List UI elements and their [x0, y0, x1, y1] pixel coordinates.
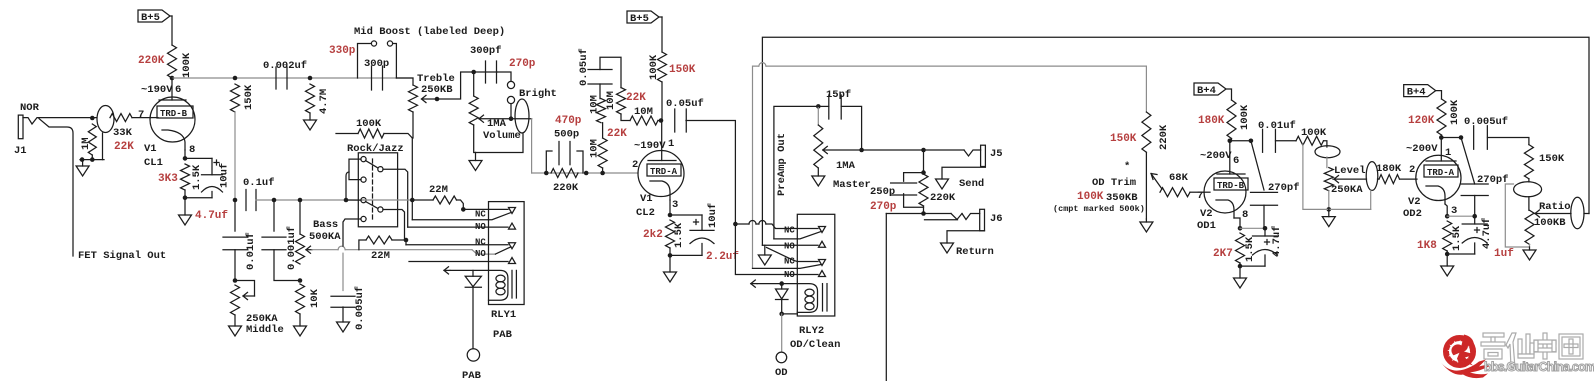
resistor 22M (bass/NC2)	[366, 236, 392, 244]
node tone stack top left	[233, 198, 238, 203]
svg-text:220K: 220K	[930, 192, 956, 204]
switch contacts	[361, 157, 366, 162]
svg-text:10M: 10M	[589, 95, 601, 114]
ground symbol (0.005uf)	[337, 322, 350, 332]
ground symbol (V1b cathode)	[664, 272, 677, 282]
shield ellipse (level feed)	[1315, 146, 1340, 158]
node: V1b plate	[659, 118, 664, 123]
svg-text:0.05uf: 0.05uf	[578, 48, 590, 86]
power flag B+4 (OD1)	[1194, 83, 1226, 95]
ground symbol (4.7M)	[304, 120, 317, 130]
svg-text:220K: 220K	[1158, 124, 1170, 150]
ground symbol (master)	[812, 176, 825, 186]
svg-text:150K: 150K	[1110, 133, 1137, 145]
node: treble wiper	[435, 97, 440, 102]
ratio wiper	[1534, 213, 1571, 215]
svg-text:22K: 22K	[607, 128, 627, 140]
svg-text:330p: 330p	[329, 45, 356, 57]
svg-text:180K: 180K	[1376, 163, 1402, 175]
svg-text:220K: 220K	[138, 55, 165, 67]
relay RLY1 contact box	[489, 202, 525, 305]
svg-text:6: 6	[1233, 155, 1239, 167]
svg-text:Volume: Volume	[483, 130, 521, 142]
svg-text:0.01uf: 0.01uf	[245, 232, 257, 270]
potentiometer 1MA Volume	[473, 72, 475, 96]
svg-text:FET Signal Out: FET Signal Out	[78, 250, 166, 262]
wire main down to blade1	[411, 200, 413, 220]
resistor 220K (send load)	[919, 174, 928, 206]
svg-text:500p: 500p	[554, 129, 579, 141]
svg-text:2K7: 2K7	[1213, 248, 1233, 260]
input jack J1 (NOR)	[18, 115, 23, 139]
svg-text:V1: V1	[144, 143, 157, 155]
svg-text:100K: 100K	[181, 52, 193, 78]
wire tone top	[256, 199, 363, 201]
wire to NC2 row	[405, 240, 407, 245]
node 0.001uf top	[272, 198, 277, 203]
node OD1 plate	[1228, 139, 1233, 144]
svg-text:OD Trim: OD Trim	[1092, 177, 1136, 189]
ground symbol (relay NO1)	[758, 255, 771, 265]
node: V1a plate	[170, 76, 175, 81]
svg-text:250KA: 250KA	[1331, 184, 1363, 196]
svg-text:350KB: 350KB	[1106, 192, 1138, 204]
svg-text:22K: 22K	[114, 141, 134, 153]
svg-text:TRD-A: TRD-A	[1427, 168, 1455, 178]
OD2 cathode network	[1445, 204, 1447, 216]
svg-text:NC: NC	[784, 226, 795, 236]
svg-text:0.002uf: 0.002uf	[263, 60, 307, 72]
relay RLY2 blade2 (OD drive from rail2)	[753, 267, 798, 269]
wire to 150K	[1488, 138, 1529, 145]
node: send line / 220K	[921, 148, 926, 153]
svg-text:100K: 100K	[1239, 104, 1251, 130]
svg-text:33K: 33K	[113, 127, 133, 139]
svg-text:3K3: 3K3	[158, 173, 178, 185]
potentiometer OD Trim 220K/350KB	[1142, 112, 1151, 152]
power flag B+5 (stage 1)	[138, 10, 170, 22]
svg-text:Master: Master	[833, 179, 871, 191]
node 220K right	[584, 171, 589, 176]
svg-text:0.01uf: 0.01uf	[1258, 120, 1296, 132]
svg-text:22M: 22M	[371, 250, 390, 262]
resistor 100K plate load OD2 (red 120K)	[1437, 99, 1446, 135]
relay RLY2 coil row + arrow	[757, 283, 797, 285]
relay RLY1 coil row + arrow	[450, 269, 489, 271]
svg-text:1MA: 1MA	[836, 160, 856, 172]
triode V2 OD1 (TRD-B)	[1204, 171, 1246, 213]
svg-text:8: 8	[189, 144, 195, 156]
diagonal to NC2	[767, 248, 795, 261]
diode (RLY1 coil)	[472, 270, 474, 276]
volume wiper wire	[479, 118, 532, 120]
svg-text:7: 7	[1197, 190, 1203, 202]
node: jack tip / 1M	[90, 116, 95, 121]
resistor 10M #2 (ladder top)	[597, 99, 606, 123]
svg-text:RLY1: RLY1	[491, 309, 516, 321]
svg-text:1.5K: 1.5K	[191, 164, 203, 190]
svg-text:(cmpt marked 500k): (cmpt marked 500k)	[1053, 204, 1145, 214]
ground symbol (ratio)	[1523, 250, 1536, 260]
node 22M/NC1	[461, 207, 466, 212]
svg-text:3: 3	[1451, 205, 1457, 217]
node: master feed	[816, 104, 821, 109]
svg-text:100K: 100K	[1449, 99, 1461, 125]
resistor 1.5K cathode (red 2k2)	[666, 220, 675, 248]
shield ellipse (ratio wiper)	[1571, 197, 1584, 228]
svg-text:J1: J1	[14, 145, 27, 157]
svg-text:V2: V2	[1200, 208, 1213, 220]
svg-text:1.5K: 1.5K	[673, 222, 685, 248]
svg-text:CL1: CL1	[144, 157, 163, 169]
rail: Ratio wiper to relay NO1 (top rail 1)	[762, 37, 1589, 245]
node bass top	[298, 198, 303, 203]
svg-text:22K: 22K	[626, 92, 646, 104]
main line to relay area	[363, 199, 413, 201]
svg-text:100K: 100K	[1077, 191, 1104, 203]
svg-text:300p: 300p	[364, 58, 389, 70]
svg-text:Send: Send	[959, 178, 984, 190]
OD trim wiper + 68K	[1151, 174, 1162, 190]
wire to OD switch terminal	[781, 314, 783, 352]
svg-text:2: 2	[1409, 164, 1415, 176]
shield ellipse at input	[97, 106, 114, 133]
svg-text:NO: NO	[475, 249, 486, 259]
22M#2 branch	[359, 240, 366, 250]
svg-text:B+4: B+4	[1197, 85, 1216, 97]
resistor 150K	[231, 84, 240, 112]
svg-text:150K: 150K	[669, 64, 696, 76]
ground symbol (volume)	[469, 161, 482, 171]
resistor 10K	[296, 284, 305, 314]
potentiometer 1MA Master	[814, 125, 823, 168]
resistor 100K (to level)	[1276, 140, 1297, 142]
switch left jumpers	[349, 159, 361, 180]
svg-text:Mid Boost (labeled Deep): Mid Boost (labeled Deep)	[354, 26, 505, 38]
node 500p/220K left	[544, 171, 549, 176]
node: 150K top	[233, 76, 238, 81]
svg-text:68K: 68K	[1169, 172, 1189, 184]
resistor 10M middle (red 22K)	[617, 88, 626, 114]
svg-text:PAB: PAB	[493, 329, 513, 341]
svg-text:10uf: 10uf	[219, 163, 231, 188]
svg-text:4.7uf: 4.7uf	[1481, 217, 1493, 249]
svg-text:NC: NC	[475, 238, 486, 248]
ground symbol (V1a cathode)	[179, 215, 192, 225]
wire 100K/treble junction down to relay	[411, 138, 413, 199]
wire volume wiper down	[531, 119, 533, 173]
ground symbol (return sleeve)	[941, 243, 954, 253]
svg-text:TRD-B: TRD-B	[1217, 181, 1245, 191]
svg-text:270p: 270p	[870, 201, 897, 213]
wire 220K branch	[923, 150, 925, 173]
svg-text:500KA: 500KA	[309, 231, 341, 243]
wire coupling cap out	[686, 121, 735, 225]
resistor 10M #1 (ladder bottom, red 22K)	[598, 138, 607, 168]
node bass bottom	[298, 278, 303, 283]
volume bottom to ground	[474, 125, 476, 153]
svg-text:10M: 10M	[605, 91, 617, 110]
watermark text GuitarChina	[1481, 333, 1583, 368]
svg-text:~200V: ~200V	[1200, 150, 1232, 162]
resistor 220K (parallel)	[551, 169, 578, 178]
svg-text:1.5K: 1.5K	[1451, 225, 1463, 251]
relay RLY1 core bars	[511, 270, 513, 298]
svg-text:100K: 100K	[1301, 127, 1327, 139]
relay RLY2 contact box	[797, 214, 835, 316]
mid boost switch	[358, 44, 372, 79]
wire: master feed down	[817, 106, 819, 125]
svg-text:100KB: 100KB	[1534, 217, 1566, 229]
wire send	[964, 150, 981, 156]
ground symbol (OD trim)	[1140, 222, 1153, 232]
ground symbol (send sleeve)	[936, 179, 949, 189]
svg-text:250p: 250p	[870, 186, 895, 198]
node switch/main	[344, 198, 349, 203]
wire treble bottom	[412, 112, 414, 138]
potentiometer 250KA Middle	[231, 285, 240, 315]
svg-text:10M: 10M	[589, 139, 601, 158]
svg-text:Return: Return	[956, 246, 994, 258]
shield ellipse (bright wire)	[515, 99, 529, 133]
svg-text:Bass: Bass	[313, 219, 338, 231]
relay RLY2 core bars	[822, 284, 824, 311]
svg-text:~190V: ~190V	[141, 84, 173, 96]
resistor 100K plate load V1b (red 150K)	[658, 52, 667, 82]
svg-text:V1: V1	[640, 193, 653, 205]
cathode network V1a: 1.5K + 10uf (red 4.7uf)	[184, 150, 186, 158]
resistor 100K plate load OD1 (red 180K)	[1227, 100, 1236, 139]
svg-text:PreAmp Out: PreAmp Out	[776, 133, 788, 196]
svg-text:250KB: 250KB	[421, 84, 453, 96]
switch dashed bar	[372, 159, 374, 219]
switch terminal to 0.005uf	[343, 219, 361, 246]
bass wiper long wire (to relay blade2)	[312, 249, 338, 251]
svg-text:300pf: 300pf	[470, 45, 502, 57]
relay RLY2 blade1 (preamp out)	[774, 238, 797, 240]
svg-text:NC: NC	[475, 210, 486, 220]
wire treble wiper to bright/volume node	[437, 72, 497, 99]
power flag B+4 (OD2)	[1404, 85, 1436, 97]
svg-text:Middle: Middle	[246, 324, 284, 336]
rock/jazz switch box	[358, 153, 397, 227]
node OD2 plate	[1439, 135, 1444, 140]
svg-text:NO: NO	[784, 242, 795, 252]
svg-text:OD: OD	[775, 367, 788, 379]
wire: preamp-out vertical	[774, 106, 818, 239]
capacitor 4.7uf (red 1uf)	[1447, 215, 1475, 217]
svg-text:~200V: ~200V	[1406, 143, 1438, 155]
jack J6 Return	[980, 209, 985, 231]
svg-text:B+5: B+5	[630, 13, 649, 25]
svg-text:10M: 10M	[634, 106, 653, 118]
capacitor 10uf bypass (red 2.2uf)	[670, 214, 702, 216]
svg-text:2: 2	[632, 159, 638, 171]
capacitor 0.005uf	[331, 295, 355, 297]
ratio bottom rail	[1505, 184, 1529, 247]
svg-text:8: 8	[1242, 209, 1248, 221]
svg-text:4.7uf: 4.7uf	[195, 210, 228, 222]
resistor 1.5K (red 1K8)	[1443, 221, 1452, 251]
wire: plate rail to tone stack	[172, 77, 413, 79]
return line	[921, 211, 926, 216]
switch moving contact wires to relay	[383, 169, 408, 227]
resistor 22M (PAB bypass)	[412, 199, 433, 201]
svg-text:220K: 220K	[553, 182, 579, 194]
svg-text:1.5K: 1.5K	[1244, 236, 1256, 262]
cathode node V1b	[669, 200, 671, 215]
wire: 150K down to tone stack	[234, 112, 236, 200]
level wiper	[1333, 178, 1367, 180]
svg-text:1uf: 1uf	[1494, 248, 1514, 260]
svg-text:0.05uf: 0.05uf	[666, 98, 704, 110]
capacitor 0.01uf (middle)	[234, 200, 236, 231]
svg-text:V2: V2	[1408, 196, 1421, 208]
ground symbol (OD2 cathode)	[1441, 266, 1454, 276]
rail: OD Trim feed (rail 2) with hop	[753, 66, 759, 268]
capacitor 4.7uf bypass	[1240, 227, 1265, 229]
svg-text:2.2uf: 2.2uf	[706, 251, 739, 263]
svg-text:180K: 180K	[1198, 115, 1225, 127]
resistor 1.5K (red 2K7)	[1236, 233, 1245, 263]
triode V1 CL2 (TRD-A)	[638, 151, 684, 197]
svg-text:TRD-B: TRD-B	[160, 109, 188, 119]
relay RLY1 blade1	[412, 219, 488, 221]
svg-text:3: 3	[672, 199, 678, 211]
node: 4.7M top	[308, 76, 313, 81]
svg-text:10uf: 10uf	[707, 203, 719, 228]
svg-text:OD1: OD1	[1197, 220, 1216, 232]
svg-text:NOR: NOR	[20, 102, 40, 114]
svg-text:0.005uf: 0.005uf	[1464, 116, 1508, 128]
wire to Treble	[396, 78, 413, 85]
potentiometer Bass 500KA	[299, 200, 301, 234]
svg-text:PAB: PAB	[462, 370, 482, 381]
svg-text:22M: 22M	[429, 184, 448, 196]
svg-text:10K: 10K	[309, 288, 321, 308]
bass wiper	[306, 249, 312, 251]
svg-text:OD/Clean: OD/Clean	[790, 339, 840, 351]
OD1 cathode network	[1234, 218, 1240, 228]
svg-text:Ratio: Ratio	[1539, 201, 1571, 213]
svg-text:Bright: Bright	[519, 88, 557, 100]
relay RLY1 coil	[489, 270, 508, 300]
relay RLY2 coil	[797, 284, 817, 313]
svg-text:RLY2: RLY2	[799, 325, 824, 337]
svg-text:J6: J6	[990, 213, 1003, 225]
node grid ladder bottom	[600, 171, 605, 176]
triode V2 OD2 (TRD-A)	[1416, 155, 1461, 200]
svg-text:100K: 100K	[648, 54, 660, 80]
wire V1b out to NC1 with hops	[749, 221, 756, 225]
svg-text:TRD-A: TRD-A	[650, 167, 678, 177]
switch blades	[366, 161, 379, 169]
svg-text:B+5: B+5	[141, 12, 160, 24]
resistor 10M horizontal to plate	[630, 116, 658, 125]
node main/NO-vert	[410, 198, 415, 203]
capacitor 0.001uf	[273, 200, 275, 231]
svg-text:2k2: 2k2	[643, 229, 663, 241]
ground symbol (middle pot)	[229, 326, 242, 336]
ground stub on NO1/NC2	[764, 245, 766, 255]
svg-text:0.005uf: 0.005uf	[354, 286, 366, 330]
triode V1 CL1 (TRD-B)	[150, 97, 195, 142]
svg-text:1M: 1M	[80, 137, 92, 150]
level shield/ground rail	[1328, 191, 1330, 210]
node bright to volume wiper	[509, 116, 514, 121]
svg-text:7: 7	[138, 109, 144, 121]
ground symbol (OD1 cathode)	[1234, 278, 1247, 288]
ground bus at input	[80, 159, 104, 161]
resistor 4.7M	[306, 84, 315, 113]
svg-text:150K: 150K	[243, 84, 255, 110]
svg-text:6: 6	[175, 84, 181, 96]
wire main to grid ladder	[532, 172, 638, 174]
svg-text:0.001uf: 0.001uf	[286, 226, 298, 270]
node: volume top	[471, 70, 476, 75]
terminal PAB	[467, 349, 479, 361]
power flag B+5 (stage 2)	[627, 11, 659, 23]
resistor 100K plate load V1a (red 220K)	[168, 45, 177, 78]
watermark logo GuitarChina	[1441, 335, 1491, 379]
relay RLY1 blade2	[495, 247, 511, 254]
svg-text:15pf: 15pf	[826, 89, 851, 101]
master wiper wire	[859, 148, 864, 153]
ground symbol (10K)	[294, 326, 307, 336]
svg-text:CL2: CL2	[636, 207, 655, 219]
shield ellipse (ratio)	[1514, 182, 1542, 197]
terminal OD	[776, 352, 787, 363]
svg-text:1: 1	[668, 138, 674, 150]
jack J5 Send	[981, 145, 986, 166]
svg-text:*: *	[1124, 161, 1130, 173]
wire: return to power amp (off page)	[885, 214, 887, 381]
svg-text:J5: J5	[990, 148, 1003, 160]
resistor 33K grid stopper (red 22K)	[110, 114, 132, 122]
svg-text:150K: 150K	[1539, 153, 1565, 165]
svg-text:0.1uf: 0.1uf	[243, 177, 275, 189]
svg-text:bbs.GuitarChina.com: bbs.GuitarChina.com	[1484, 360, 1594, 374]
svg-text:4.7uf: 4.7uf	[1271, 225, 1283, 257]
svg-text:B+4: B+4	[1407, 87, 1426, 99]
svg-text:120K: 120K	[1408, 115, 1435, 127]
svg-text:1K8: 1K8	[1417, 240, 1437, 252]
svg-text:1MA: 1MA	[487, 118, 507, 130]
diode (RLY2 coil)	[779, 281, 784, 286]
resistor 1M grid leak	[88, 124, 96, 155]
svg-text:470p: 470p	[555, 115, 582, 127]
shield ellipse (level wiper)	[1366, 162, 1378, 191]
ground symbol (input)	[76, 166, 89, 176]
svg-text:270p: 270p	[509, 58, 536, 70]
svg-text:OD2: OD2	[1403, 208, 1422, 220]
svg-text:NC: NC	[784, 257, 795, 267]
ground symbol (level)	[1322, 217, 1335, 227]
svg-text:4.7M: 4.7M	[318, 89, 330, 114]
